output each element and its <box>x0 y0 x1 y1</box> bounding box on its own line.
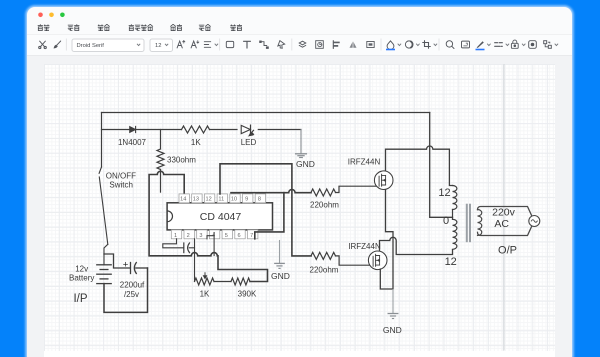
diode D1 1N4007 <box>130 127 136 133</box>
transistor Q2 IRFZ44N <box>368 251 387 270</box>
svg-text:I/P: I/P <box>73 293 87 305</box>
wire pot to R4 <box>214 281 231 283</box>
toolbar icons <box>39 41 47 49</box>
svg-text:390K: 390K <box>238 290 257 299</box>
op-amp U1 CD 4047 body <box>167 203 272 230</box>
transformer T1 secondary <box>478 210 482 236</box>
svg-text:O/P: O/P <box>498 244 517 256</box>
svg-text:CD 4047: CD 4047 <box>200 211 242 223</box>
potentiometer R3 1K <box>195 278 215 285</box>
wire pin3 link <box>207 236 214 239</box>
AC source circle <box>529 216 540 227</box>
svg-text:1K: 1K <box>200 290 210 299</box>
svg-text:8: 8 <box>258 197 261 203</box>
svg-text:LED: LED <box>241 138 257 147</box>
svg-text:2: 2 <box>187 233 190 239</box>
svg-text:12v: 12v <box>75 265 88 274</box>
wire pin10 inner box <box>231 193 284 239</box>
svg-text:330ohm: 330ohm <box>167 156 196 165</box>
resistor R6 220ohm lower <box>311 252 336 259</box>
svg-text:7: 7 <box>250 233 253 239</box>
IC top pin boxes 14-8 <box>179 194 189 203</box>
traffic light minimize <box>49 13 54 18</box>
traffic light zoom <box>60 13 65 18</box>
wire top rail <box>102 112 430 114</box>
wire to upper 220ohm <box>284 190 311 193</box>
svg-text:12: 12 <box>445 256 457 268</box>
svg-text:13: 13 <box>193 197 199 203</box>
battery B1 <box>97 264 111 266</box>
svg-text:14: 14 <box>180 197 186 203</box>
wire center tap vertical <box>430 113 453 218</box>
wire rail to diode <box>102 129 130 131</box>
transformer T1 primary upper <box>453 186 457 210</box>
wire LED to GND drop <box>258 129 301 131</box>
wire left vertical <box>101 113 103 168</box>
wire pin14 loop <box>149 171 267 281</box>
wire Q2 drain to coil <box>380 237 453 254</box>
svg-text:IRFZ44N: IRFZ44N <box>348 242 381 251</box>
IC bottom pin boxes 1-7 <box>171 230 181 239</box>
svg-text:ON/OFF: ON/OFF <box>106 171 136 180</box>
toolbar background <box>27 34 572 56</box>
svg-text:IRFZ44N: IRFZ44N <box>348 158 381 167</box>
svg-text:12: 12 <box>438 187 450 199</box>
transformer core <box>466 204 468 243</box>
resistor R5 220ohm upper <box>311 189 336 196</box>
wire R1 to LED <box>210 129 238 131</box>
switch S1 ON/OFF <box>99 167 101 173</box>
svg-text:1K: 1K <box>191 138 201 147</box>
drawing page with grid <box>44 64 555 357</box>
svg-text:10: 10 <box>231 197 237 203</box>
wire R5 to Q1 gate <box>336 186 379 192</box>
wire Q1 drain to coil <box>386 146 453 186</box>
svg-text:Droid Serif: Droid Serif <box>77 43 105 49</box>
svg-text:GND: GND <box>383 325 402 335</box>
document canvas background <box>27 56 572 357</box>
svg-text:GND: GND <box>296 159 315 169</box>
wire switch to battery <box>104 244 108 264</box>
resistor R4 390K <box>231 278 250 285</box>
svg-text:3: 3 <box>199 233 202 239</box>
ground G1 top <box>300 130 302 154</box>
wire Q1 source chain <box>380 190 393 289</box>
wire pin1 <box>163 239 184 248</box>
traffic light close <box>38 13 43 18</box>
transformer T1 primary lower <box>453 219 457 249</box>
svg-text:+: + <box>123 259 129 270</box>
LED D2 <box>241 125 250 133</box>
ground G3 bottom <box>392 290 394 314</box>
svg-text:1: 1 <box>174 233 177 239</box>
svg-text:220ohm: 220ohm <box>310 200 339 209</box>
wire R6 to Q2 gate <box>336 256 373 265</box>
svg-text:11: 11 <box>218 197 224 203</box>
ground G2 mid <box>279 241 281 264</box>
svg-text:9: 9 <box>245 197 248 203</box>
wire battery bottom loop <box>104 268 148 312</box>
svg-text:220ohm: 220ohm <box>310 265 339 274</box>
capacitor C1 2200uf <box>130 263 132 274</box>
svg-text:1N4007: 1N4007 <box>118 138 147 147</box>
svg-text:12: 12 <box>155 43 161 49</box>
svg-text:/25v: /25v <box>124 290 139 299</box>
resistor R2 330ohm <box>160 130 162 150</box>
svg-text:0: 0 <box>443 215 449 227</box>
svg-text:2200uf: 2200uf <box>120 281 145 290</box>
svg-text:AC: AC <box>494 218 509 230</box>
svg-text:GND: GND <box>271 271 290 281</box>
wire pin11 outer loop <box>220 164 311 256</box>
wire pin4 vertical <box>213 233 215 256</box>
output tag 220v AC <box>478 207 535 236</box>
svg-text:220v: 220v <box>492 207 516 219</box>
wire battery plus branch <box>104 254 130 268</box>
resistor R1 1K <box>182 126 210 133</box>
svg-text:Battery: Battery <box>69 274 94 283</box>
IC notch <box>167 211 172 222</box>
menu bar items <box>38 24 43 30</box>
wire diode to junction <box>136 129 182 131</box>
transistor Q1 IRFZ44N <box>374 171 393 190</box>
capacitor C2 <box>183 243 185 253</box>
svg-text:6: 6 <box>237 233 240 239</box>
transformer primary link <box>452 210 454 220</box>
svg-text:Switch: Switch <box>109 181 133 190</box>
wire pin2 vertical <box>194 239 196 282</box>
svg-text:12: 12 <box>205 197 211 203</box>
page divider <box>504 64 505 351</box>
svg-text:5: 5 <box>225 233 228 239</box>
